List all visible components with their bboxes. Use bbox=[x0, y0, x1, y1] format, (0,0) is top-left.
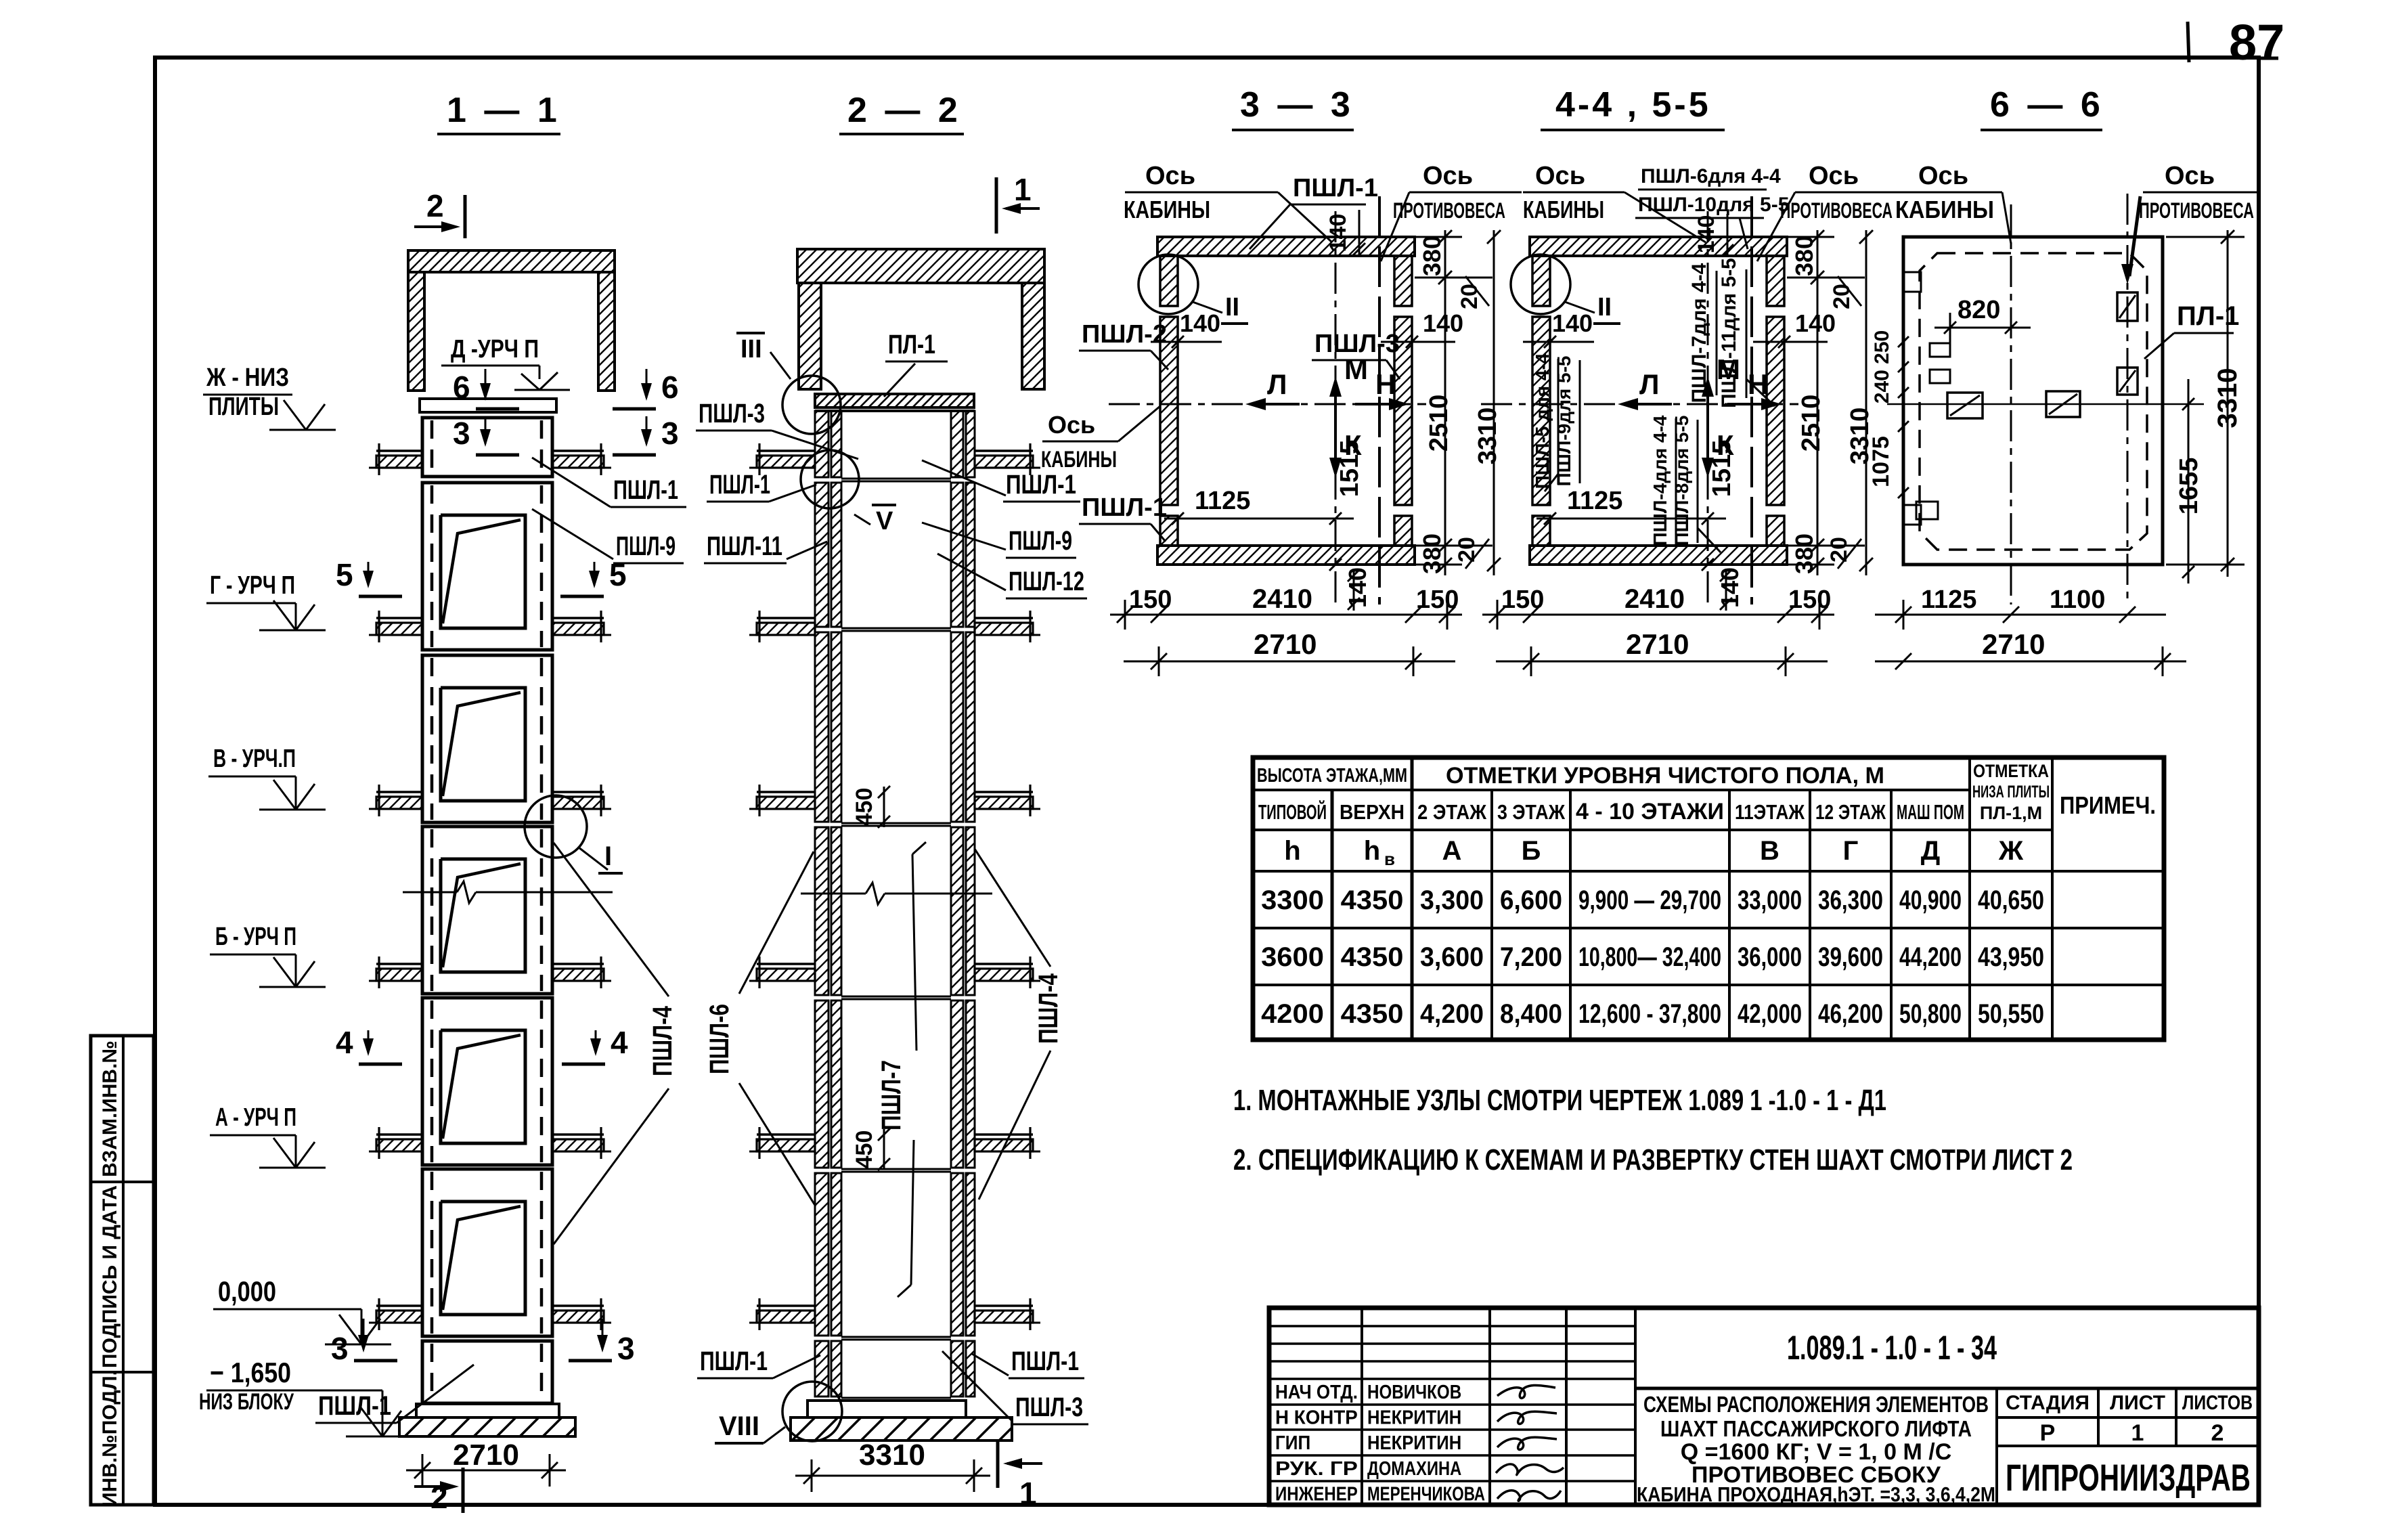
svg-text:2710: 2710 bbox=[453, 1438, 519, 1472]
svg-text:А: А bbox=[1442, 836, 1462, 866]
plan 3-3 arrow Л bbox=[1250, 403, 1300, 405]
svg-text:ПШЛ-1: ПШЛ-1 bbox=[1006, 470, 1076, 500]
section marker 4 left bbox=[368, 1030, 370, 1053]
svg-text:ПШЛ-1: ПШЛ-1 bbox=[1293, 174, 1378, 202]
svg-text:4,200: 4,200 bbox=[1420, 999, 1484, 1029]
svg-text:VIII: VIII bbox=[719, 1411, 759, 1441]
plan 4-4 dim 3310 chain bbox=[1865, 230, 1867, 575]
svg-text:4: 4 bbox=[336, 1025, 353, 1060]
svg-text:Р: Р bbox=[2040, 1420, 2056, 1446]
svg-text:h: h bbox=[1364, 836, 1380, 866]
section 1-1 shaft storey segment 5 bbox=[422, 998, 552, 1165]
svg-text:ПШЛ-3: ПШЛ-3 bbox=[699, 399, 765, 428]
svg-text:12,600 - 37,800: 12,600 - 37,800 bbox=[1578, 999, 1721, 1029]
svg-text:НАЧ ОТД.: НАЧ ОТД. bbox=[1275, 1382, 1358, 1403]
svg-text:39,600: 39,600 bbox=[1818, 942, 1883, 972]
floor levels table bbox=[1253, 757, 2164, 1040]
svg-text:ПШЛ-10для 5-5: ПШЛ-10для 5-5 bbox=[1638, 194, 1789, 216]
svg-text:820: 820 bbox=[1958, 296, 2000, 324]
section 2-2 interior joint line 2 bbox=[841, 628, 951, 630]
svg-text:87: 87 bbox=[2229, 14, 2284, 70]
svg-text:Л: Л bbox=[1639, 368, 1659, 400]
svg-text:Д -УРЧ П: Д -УРЧ П bbox=[451, 335, 539, 364]
svg-text:ПШЛ-6для 4-4: ПШЛ-6для 4-4 bbox=[1641, 165, 1781, 188]
svg-text:5: 5 bbox=[336, 557, 353, 592]
svg-text:140: 140 bbox=[1795, 309, 1836, 337]
svg-text:ПШЛ-11для 5-5: ПШЛ-11для 5-5 bbox=[1718, 258, 1740, 408]
plan 6-6 bottom dim 2710 bbox=[1875, 661, 2186, 663]
section 2-2 floor slab stub left level 6 bbox=[757, 1304, 815, 1307]
plan 4-4 top wall bbox=[1530, 237, 1787, 256]
plan 4-4 arrow М bbox=[1706, 380, 1709, 447]
plan 4-4 left wall bbox=[1532, 317, 1550, 505]
svg-text:43,950: 43,950 bbox=[1978, 942, 2044, 972]
svg-text:40,650: 40,650 bbox=[1978, 885, 2044, 915]
svg-text:ВЗАМ.ИНВ.№: ВЗАМ.ИНВ.№ bbox=[99, 1040, 121, 1177]
plan 4-4 cab axis bbox=[1707, 211, 1709, 606]
plan 4-4 corner legs top bbox=[1532, 256, 1550, 306]
section marker 5 left bbox=[368, 562, 370, 586]
svg-text:140: 140 bbox=[1552, 309, 1593, 337]
section 1-1 floor slab stub left level 3 bbox=[376, 791, 422, 793]
plan 4-4 counterweight axis bbox=[1750, 196, 1753, 604]
plan 3-3 bottom wall bbox=[1157, 546, 1415, 565]
detail circle V bbox=[801, 450, 859, 508]
section 2-2 floor slab stub left level 2 bbox=[757, 617, 815, 619]
section 2-2 interior joint line 5 bbox=[841, 1168, 951, 1170]
svg-text:2710: 2710 bbox=[1626, 628, 1689, 660]
svg-text:1125: 1125 bbox=[1921, 586, 1976, 614]
svg-text:Ось: Ось bbox=[1918, 162, 1968, 190]
svg-text:36,300: 36,300 bbox=[1818, 885, 1883, 915]
svg-text:450: 450 bbox=[852, 1130, 877, 1169]
section 2-2 cut marker 1 bottom bbox=[1007, 1462, 1042, 1465]
svg-text:4350: 4350 bbox=[1341, 942, 1404, 972]
svg-text:СХЕМЫ РАСПОЛОЖЕНИЯ ЭЛЕМЕНТОВ: СХЕМЫ РАСПОЛОЖЕНИЯ ЭЛЕМЕНТОВ bbox=[1643, 1392, 1989, 1417]
svg-text:150: 150 bbox=[1501, 586, 1544, 614]
section 2-2 floor slab stub left level 1 bbox=[757, 449, 815, 452]
svg-text:ПРОТИВОВЕСА: ПРОТИВОВЕСА bbox=[2139, 198, 2254, 223]
plan 4-4 arrow Л bbox=[1622, 403, 1672, 405]
section 2-2 floor slab stub left level 3 bbox=[757, 791, 815, 793]
svg-text:ТИПОВОЙ: ТИПОВОЙ bbox=[1258, 799, 1327, 824]
svg-text:4-4 , 5-5: 4-4 , 5-5 bbox=[1555, 85, 1711, 125]
section 1-1 floor slab stub left level 1 bbox=[376, 449, 422, 452]
svg-text:2510: 2510 bbox=[1797, 395, 1826, 452]
svg-text:4350: 4350 bbox=[1341, 999, 1404, 1029]
section 2-2 wall panels row 1 bbox=[815, 411, 828, 477]
svg-text:140: 140 bbox=[1325, 214, 1351, 252]
section 2-2 interior joint line 7 bbox=[841, 1397, 951, 1399]
svg-text:1075: 1075 bbox=[1868, 436, 1894, 487]
plan 4-4 arrow К bbox=[1706, 429, 1709, 474]
section 2-2 wall panels row 3 bbox=[815, 632, 828, 822]
svg-text:ПШЛ-9для 5-5: ПШЛ-9для 5-5 bbox=[1553, 356, 1574, 487]
section 2-2 interior joint line 1 bbox=[841, 478, 951, 480]
plan 3-3 bottom dim 2710 bbox=[1124, 661, 1455, 663]
svg-text:2: 2 bbox=[426, 188, 444, 223]
svg-text:ПОДПИСЬ И ДАТА: ПОДПИСЬ И ДАТА bbox=[99, 1185, 121, 1368]
plan 3-3 counterweight axis bbox=[1378, 196, 1381, 604]
svg-text:ПЛ-1: ПЛ-1 bbox=[888, 330, 935, 359]
svg-text:ПРОТИВОВЕСА: ПРОТИВОВЕСА bbox=[1393, 198, 1505, 223]
svg-text:Ось: Ось bbox=[1145, 162, 1195, 190]
svg-text:0,000: 0,000 bbox=[218, 1275, 276, 1307]
plan 3-3 dim 3310 chain bbox=[1493, 230, 1495, 575]
svg-text:КАБИНЫ: КАБИНЫ bbox=[1523, 196, 1604, 223]
section 2-2 machine room left wall bbox=[799, 283, 821, 389]
svg-text:ОТМЕТКИ УРОВНЯ ЧИСТОГО ПОЛА: ОТМЕТКИ УРОВНЯ ЧИСТОГО ПОЛА, М bbox=[1446, 763, 1884, 789]
svg-text:2 ЭТАЖ: 2 ЭТАЖ bbox=[1417, 800, 1487, 824]
svg-text:ЛИСТ: ЛИСТ bbox=[2110, 1392, 2165, 1414]
svg-text:в: в bbox=[1384, 849, 1395, 869]
section 1-1 door opening 6 bbox=[441, 1202, 525, 1315]
svg-text:20: 20 bbox=[1829, 284, 1855, 309]
svg-text:КАБИНЫ: КАБИНЫ bbox=[1041, 447, 1117, 472]
plan 3-3 detail circle II bbox=[1138, 255, 1198, 314]
svg-text:1125: 1125 bbox=[1195, 487, 1250, 515]
section 1-1 door opening 3 bbox=[441, 688, 525, 801]
svg-text:3600: 3600 bbox=[1261, 942, 1324, 972]
svg-text:ИНВ.№ПОДЛ.: ИНВ.№ПОДЛ. bbox=[99, 1370, 121, 1507]
svg-text:8,400: 8,400 bbox=[1500, 999, 1562, 1029]
section 2-2 floor slab stub right level 6 bbox=[975, 1304, 1033, 1307]
svg-text:140: 140 bbox=[1344, 567, 1371, 608]
svg-text:44,200: 44,200 bbox=[1899, 942, 1962, 972]
section 2-2 break line bbox=[801, 893, 866, 895]
title block stage grid bbox=[1995, 1388, 1998, 1505]
section 1-1 cut marker 2 bottom bbox=[414, 1485, 454, 1488]
svg-text:3: 3 bbox=[661, 416, 679, 451]
section marker 3 upper left bbox=[485, 416, 487, 444]
svg-text:ГИПРОНИИЗДРАВ: ГИПРОНИИЗДРАВ bbox=[2006, 1456, 2251, 1499]
svg-text:ПШЛ-7: ПШЛ-7 bbox=[877, 1060, 906, 1130]
svg-text:В - УРЧ.П: В - УРЧ.П bbox=[213, 745, 296, 773]
svg-text:Ось: Ось bbox=[2165, 162, 2215, 190]
plan 3-3 arrow М bbox=[1334, 380, 1337, 447]
section 1-1 base plate bbox=[416, 1404, 559, 1417]
svg-text:ПШЛ-7для 4-4: ПШЛ-7для 4-4 bbox=[1688, 263, 1710, 403]
svg-text:Л: Л bbox=[1267, 368, 1287, 400]
section 1-1 shaft segment ПШЛ-1 top bbox=[422, 418, 552, 477]
svg-text:ПШЛ-4для 4-4: ПШЛ-4для 4-4 bbox=[1650, 415, 1671, 546]
svg-text:140: 140 bbox=[1180, 309, 1220, 337]
plan 4-4 arrow Н bbox=[1727, 403, 1777, 405]
plan 6-6 cab axis bbox=[2010, 204, 2012, 604]
svg-text:Б: Б bbox=[1522, 836, 1541, 866]
svg-text:Ж - НИЗ: Ж - НИЗ bbox=[206, 364, 289, 392]
svg-text:− 1,650: − 1,650 bbox=[210, 1357, 291, 1388]
svg-text:II: II bbox=[1597, 293, 1612, 322]
svg-text:ПШЛ-1: ПШЛ-1 bbox=[1011, 1346, 1079, 1376]
plan 6-6 outer wall bbox=[1903, 237, 2163, 565]
section marker 3 upper right bbox=[646, 416, 648, 444]
plan 4-4 bottom wall bbox=[1530, 546, 1787, 565]
svg-text:2: 2 bbox=[430, 1480, 448, 1515]
section 2-2 floor slab stub right level 1 bbox=[975, 449, 1033, 452]
left sidebar stamp column bbox=[91, 1036, 154, 1505]
svg-text:380: 380 bbox=[1418, 533, 1446, 574]
svg-text:150: 150 bbox=[1788, 586, 1831, 614]
svg-text:Г - УРЧ П: Г - УРЧ П bbox=[210, 571, 295, 600]
section 1-1 floor slab stub right level 5 bbox=[552, 1133, 604, 1136]
svg-text:ПРОТИВОВЕСА: ПРОТИВОВЕСА bbox=[1780, 198, 1893, 223]
svg-text:240 250: 240 250 bbox=[1871, 330, 1893, 403]
section 1-1 break line bbox=[403, 892, 457, 894]
svg-text:СТАДИЯ: СТАДИЯ bbox=[2006, 1392, 2089, 1414]
section 1-1 door opening 5 bbox=[441, 1030, 525, 1143]
svg-text:I: I bbox=[604, 841, 612, 871]
plan 6-6 left wall notches bbox=[1903, 272, 1921, 292]
svg-text:КАБИНА ПРОХОДНАЯ,hЭТ. =3,3, 3,: КАБИНА ПРОХОДНАЯ,hЭТ. =3,3, 3,6,4,2М bbox=[1637, 1482, 1995, 1506]
plan 6-6 horizontal axis line bbox=[1887, 403, 2204, 405]
svg-text:3310: 3310 bbox=[859, 1438, 925, 1472]
svg-text:1515: 1515 bbox=[1335, 440, 1364, 498]
section 2-2 wall panels row 5 bbox=[815, 1000, 828, 1168]
section marker 5 right bbox=[594, 562, 596, 586]
svg-text:50,550: 50,550 bbox=[1978, 999, 2044, 1029]
svg-text:Д: Д bbox=[1921, 836, 1941, 866]
svg-text:20: 20 bbox=[1454, 537, 1480, 563]
svg-text:Ось: Ось bbox=[1423, 162, 1473, 190]
plan 3-3 cab axis bbox=[1335, 211, 1337, 606]
svg-text:НОВИЧКОВ: НОВИЧКОВ bbox=[1367, 1382, 1461, 1403]
svg-text:Н КОНТР: Н КОНТР bbox=[1275, 1407, 1358, 1429]
title block signatures bbox=[1497, 1385, 1555, 1398]
svg-text:Н: Н bbox=[1375, 368, 1396, 400]
section 2-2 interior joint line 3 bbox=[841, 822, 951, 824]
svg-text:ВЕРХН: ВЕРХН bbox=[1340, 800, 1405, 824]
svg-text:ПШЛ-12: ПШЛ-12 bbox=[1009, 567, 1084, 596]
section 2-2 slab ПЛ-1 hatched bbox=[815, 394, 974, 408]
section 2-2 floor slab stub left level 5 bbox=[757, 1133, 815, 1136]
svg-text:2 — 2: 2 — 2 bbox=[847, 91, 962, 130]
section 1-1 floor slab stub left level 5 bbox=[376, 1133, 422, 1136]
section 1-1 slab ПЛ-1 strip bbox=[420, 399, 556, 412]
svg-text:2710: 2710 bbox=[1982, 628, 2045, 660]
svg-text:1 — 1: 1 — 1 bbox=[447, 91, 561, 130]
svg-text:НИЗА ПЛИТЫ: НИЗА ПЛИТЫ bbox=[1972, 783, 2050, 801]
plan 3-3 horizontal axis bbox=[1109, 403, 1426, 405]
section marker 3 lower right bbox=[602, 1319, 604, 1350]
svg-text:3300: 3300 bbox=[1261, 885, 1324, 915]
svg-text:380: 380 bbox=[1790, 236, 1818, 276]
section 1-1 floor slab stub right level 4 bbox=[552, 963, 604, 965]
svg-text:4200: 4200 bbox=[1261, 999, 1324, 1029]
svg-text:Б - УРЧ П: Б - УРЧ П bbox=[215, 923, 296, 951]
svg-text:МАШ ПОМ: МАШ ПОМ bbox=[1897, 800, 1964, 824]
svg-text:ПШЛ-1: ПШЛ-1 bbox=[709, 470, 770, 500]
title block signature grid bbox=[1269, 1325, 1635, 1327]
section 2-2 wall panels row 2 bbox=[815, 483, 828, 627]
svg-text:НИЗ БЛОКУ: НИЗ БЛОКУ bbox=[199, 1389, 294, 1415]
svg-text:1: 1 bbox=[1014, 172, 1032, 207]
svg-text:ПЛ-1,М: ПЛ-1,М bbox=[1980, 803, 2042, 823]
svg-text:1125: 1125 bbox=[1567, 487, 1622, 515]
section 2-2 floor slab stub left level 4 bbox=[757, 963, 815, 965]
section 2-2 wall panels row 7 bbox=[815, 1341, 828, 1396]
section 1-1 machine room left wall bbox=[408, 272, 424, 391]
svg-text:3,300: 3,300 bbox=[1420, 885, 1484, 915]
section 1-1 shaft segment ПШЛ-1 bottom bbox=[422, 1341, 552, 1403]
section 1-1 machine room slab bbox=[408, 250, 615, 272]
section marker 3 lower left bbox=[363, 1319, 365, 1350]
svg-text:2710: 2710 bbox=[1254, 628, 1317, 660]
section 2-2 interior joint line 4 bbox=[841, 996, 951, 998]
plan 3-3 left wall bbox=[1160, 317, 1178, 505]
plan 3-3 arrow Н bbox=[1355, 403, 1405, 405]
svg-text:10,800— 32,400: 10,800— 32,400 bbox=[1578, 942, 1721, 972]
svg-text:5: 5 bbox=[609, 557, 627, 592]
section 1-1 floor slab stub left level 6 bbox=[376, 1304, 422, 1307]
svg-text:ИНЖЕНЕР: ИНЖЕНЕР bbox=[1275, 1483, 1358, 1505]
plan 6-6 bottom dims 1125 1100 bbox=[1875, 614, 2166, 616]
svg-text:3,600: 3,600 bbox=[1420, 942, 1484, 972]
svg-text:2. СПЕЦИФИКАЦИЮ К СХЕМАМ И Р: 2. СПЕЦИФИКАЦИЮ К СХЕМАМ И РАЗВЕРТКУ СТЕ… bbox=[1233, 1143, 2073, 1176]
section 2-2 wall panels row 4 bbox=[815, 827, 828, 995]
svg-text:150: 150 bbox=[1129, 586, 1172, 614]
section 2-2 machine room right wall bbox=[1022, 283, 1044, 389]
plan 3-3 corner legs bottom bbox=[1160, 516, 1178, 546]
plan 3-3 right wall bbox=[1394, 317, 1412, 505]
svg-text:В: В bbox=[1760, 836, 1779, 866]
svg-text:140: 140 bbox=[1423, 309, 1463, 337]
plan 6-6 counterweight axis bbox=[2127, 194, 2129, 604]
section 1-1 floor slab stub right level 3 bbox=[552, 791, 604, 793]
svg-text:3: 3 bbox=[617, 1331, 635, 1366]
plan 4-4 bottom dim row 150-2410-150 bbox=[1482, 614, 1834, 616]
svg-text:3 ЭТАЖ: 3 ЭТАЖ bbox=[1497, 800, 1566, 824]
svg-text:1. МОНТАЖНЫЕ УЗЛЫ СМОТРИ ЧЕ: 1. МОНТАЖНЫЕ УЗЛЫ СМОТРИ ЧЕРТЕЖ 1.089 1 … bbox=[1233, 1084, 1886, 1117]
plan 4-4 detail circle II bbox=[1511, 255, 1570, 314]
svg-text:II: II bbox=[1225, 293, 1239, 322]
svg-text:2410: 2410 bbox=[1624, 584, 1685, 614]
svg-text:9,900 — 29,700: 9,900 — 29,700 bbox=[1578, 885, 1721, 915]
svg-text:2510: 2510 bbox=[1425, 395, 1453, 452]
detail circle III bbox=[782, 376, 841, 434]
section 1-1 door opening 2 bbox=[441, 515, 525, 628]
section 2-2 floor slab stub right level 3 bbox=[975, 791, 1033, 793]
svg-text:6: 6 bbox=[453, 370, 470, 405]
section 1-1 shaft storey segment 3 bbox=[422, 655, 552, 822]
svg-text:380: 380 bbox=[1790, 533, 1818, 574]
plan 3-3 bottom dim row 150-2410-150 bbox=[1110, 614, 1462, 616]
plan 4-4 bottom dim 2710 bbox=[1496, 661, 1828, 663]
plan 3-3 arrow К bbox=[1334, 429, 1337, 474]
svg-text:140: 140 bbox=[1716, 567, 1744, 608]
svg-text:ПШЛ-5 для 4-4: ПШЛ-5 для 4-4 bbox=[1532, 353, 1553, 489]
svg-text:НЕКРИТИН: НЕКРИТИН bbox=[1367, 1432, 1461, 1454]
svg-text:М: М bbox=[1344, 353, 1368, 385]
plan 6-6 embedded plates bbox=[1947, 393, 1983, 418]
svg-text:РУК. ГР: РУК. ГР bbox=[1275, 1458, 1358, 1480]
svg-text:46,200: 46,200 bbox=[1818, 999, 1883, 1029]
section 1-1 floor slab stub left level 4 bbox=[376, 963, 422, 965]
svg-text:1.089.1 - 1.0 - 1 - 34: 1.089.1 - 1.0 - 1 - 34 bbox=[1787, 1329, 1997, 1367]
svg-text:20: 20 bbox=[1826, 537, 1852, 563]
section marker 4 right bbox=[595, 1030, 597, 1053]
svg-text:380: 380 bbox=[1418, 236, 1446, 276]
svg-text:36,000: 36,000 bbox=[1738, 942, 1802, 972]
svg-text:ПЛИТЫ: ПЛИТЫ bbox=[208, 393, 279, 421]
section 1-1 floor slab stub left level 2 bbox=[376, 617, 422, 619]
svg-text:3: 3 bbox=[453, 416, 470, 451]
plan 3-3 top wall bbox=[1157, 237, 1415, 256]
svg-text:20: 20 bbox=[1457, 284, 1482, 309]
section 1-1 door opening 4 bbox=[441, 859, 525, 972]
svg-text:2410: 2410 bbox=[1252, 584, 1312, 614]
plan 3-3 corner legs top bbox=[1160, 256, 1178, 306]
svg-text:ПШЛ-3: ПШЛ-3 bbox=[1015, 1392, 1083, 1422]
section 1-1 shaft storey segment 4 bbox=[422, 827, 552, 994]
svg-text:III: III bbox=[740, 335, 762, 364]
detail circle I bbox=[525, 795, 587, 858]
svg-text:2: 2 bbox=[2211, 1420, 2224, 1446]
svg-text:ВЫСОТА ЭТАЖА,ММ: ВЫСОТА ЭТАЖА,ММ bbox=[1257, 765, 1407, 787]
svg-text:ОТМЕТКА: ОТМЕТКА bbox=[1973, 761, 2049, 781]
section 1-1 shaft storey segment 2 bbox=[422, 483, 552, 650]
section 1-1 floor slab stub right level 2 bbox=[552, 617, 604, 619]
svg-text:ПШЛ-4: ПШЛ-4 bbox=[648, 1005, 678, 1076]
svg-text:Q =1600 КГ; V = 1, 0 М /С: Q =1600 КГ; V = 1, 0 М /С bbox=[1681, 1439, 1952, 1465]
svg-text:ЛИСТОВ: ЛИСТОВ bbox=[2182, 1392, 2253, 1414]
svg-text:ДОМАХИНА: ДОМАХИНА bbox=[1367, 1458, 1461, 1480]
svg-text:6: 6 bbox=[661, 370, 679, 405]
section 1-1 shaft storey segment 6 bbox=[422, 1169, 552, 1336]
section 2-2 wall panels row 6 bbox=[815, 1173, 828, 1336]
svg-text:1: 1 bbox=[2131, 1420, 2144, 1446]
svg-text:ШАХТ ПАССАЖИРСКОГО ЛИФТА: ШАХТ ПАССАЖИРСКОГО ЛИФТА bbox=[1660, 1416, 1972, 1441]
plan 3-3 right dim chain bbox=[1444, 230, 1446, 575]
svg-text:ПШЛ-1: ПШЛ-1 bbox=[318, 1391, 391, 1421]
svg-text:ПШЛ-11: ПШЛ-11 bbox=[707, 531, 782, 561]
svg-text:1100: 1100 bbox=[2050, 586, 2105, 614]
svg-text:12 ЭТАЖ: 12 ЭТАЖ bbox=[1815, 800, 1886, 824]
section 1-1 floor slab stub right level 1 bbox=[552, 449, 604, 452]
svg-text:Ось: Ось bbox=[1535, 162, 1585, 190]
svg-text:ПШЛ-8для 5-5: ПШЛ-8для 5-5 bbox=[1671, 416, 1692, 546]
plan 4-4 horizontal axis bbox=[1481, 403, 1798, 405]
svg-text:ГИП: ГИП bbox=[1275, 1432, 1310, 1454]
plan 4-4 right dim chain bbox=[1817, 230, 1819, 575]
svg-text:6 — 6: 6 — 6 bbox=[1990, 85, 2104, 125]
svg-text:ПЛ-1: ПЛ-1 bbox=[2177, 301, 2239, 331]
section 1-1 foundation strip bbox=[399, 1417, 575, 1436]
title block outer frame bbox=[1269, 1308, 2259, 1505]
svg-text:50,800: 50,800 bbox=[1899, 999, 1962, 1029]
svg-text:ПРИМЕЧ.: ПРИМЕЧ. bbox=[2060, 791, 2156, 819]
svg-text:3 — 3: 3 — 3 bbox=[1240, 85, 1354, 125]
svg-text:450: 450 bbox=[852, 788, 877, 827]
svg-text:1: 1 bbox=[1019, 1476, 1037, 1511]
svg-text:ПШЛ-1: ПШЛ-1 bbox=[1082, 493, 1167, 522]
section marker 6 left bbox=[485, 369, 487, 398]
section 2-2 foundation strip bbox=[791, 1417, 1012, 1440]
section 2-2 floor slab stub right level 2 bbox=[975, 617, 1033, 619]
svg-text:42,000: 42,000 bbox=[1738, 999, 1802, 1029]
section 2-2 interior joint line 6 bbox=[841, 1336, 951, 1338]
svg-text:7,200: 7,200 bbox=[1500, 942, 1562, 972]
svg-text:33,000: 33,000 bbox=[1738, 885, 1802, 915]
svg-text:4350: 4350 bbox=[1341, 885, 1404, 915]
svg-text:ПШЛ-2: ПШЛ-2 bbox=[1082, 320, 1167, 349]
plan 4-4 right wall bbox=[1767, 317, 1784, 505]
svg-text:Ж: Ж bbox=[1998, 836, 2024, 866]
svg-text:ПШЛ-3: ПШЛ-3 bbox=[1314, 330, 1400, 358]
section 2-2 shaft top edge bbox=[815, 410, 975, 412]
svg-text:Ось: Ось bbox=[1809, 162, 1859, 190]
svg-text:3: 3 bbox=[331, 1331, 349, 1366]
